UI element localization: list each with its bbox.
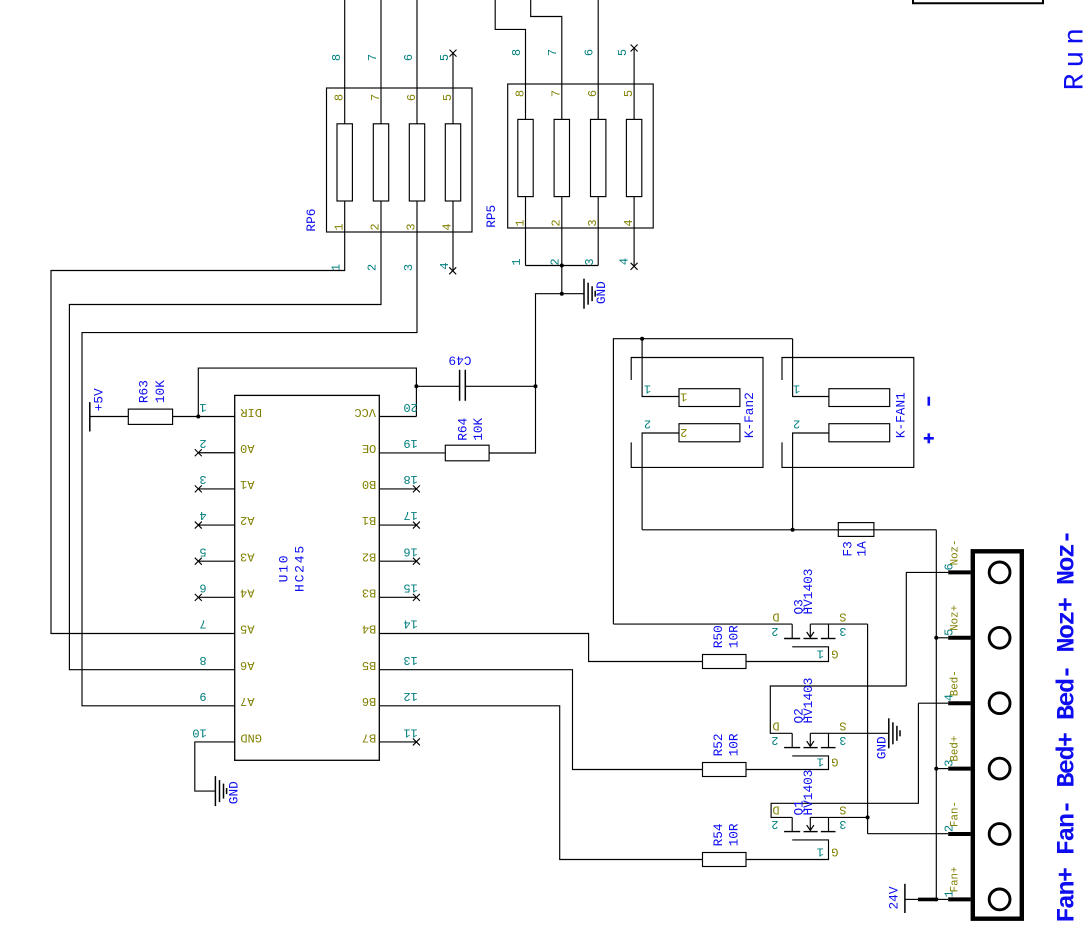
wire DIR node up and over to VCC — [198, 368, 416, 416]
Q2 channel bars — [784, 747, 800, 749]
svg-text:10R: 10R — [726, 625, 741, 648]
capacitor C49 plates — [459, 370, 461, 401]
svg-text:Noz+: Noz+ — [950, 605, 962, 631]
wire K-Fan2 pin2 to fuse net — [642, 433, 679, 530]
resistor RP6 element 4 body — [445, 124, 460, 201]
wire Q3/Q1 source down to Fan- terminal — [867, 624, 869, 834]
wire net RP6 pin1 to U10 A5 — [51, 201, 345, 634]
Q3 channel bars — [784, 638, 800, 640]
resistor pack RP6 box — [327, 88, 473, 232]
svg-text:18: 18 — [403, 472, 417, 486]
ground symbol near Q2 — [888, 718, 890, 748]
svg-text:Run: Run — [1061, 22, 1089, 90]
svg-text:1: 1 — [199, 400, 206, 414]
wire RP5 pin4 stub — [633, 197, 635, 266]
resistor RP6 element 3 body — [409, 124, 424, 201]
svg-text:1: 1 — [817, 845, 824, 859]
svg-text:HV1403: HV1403 — [801, 569, 816, 615]
svg-text:1: 1 — [817, 647, 824, 661]
svg-text:24V: 24V — [887, 886, 902, 909]
svg-text:B6: B6 — [362, 694, 376, 708]
svg-text:1: 1 — [680, 390, 687, 404]
no-connect X U10 pin 4 — [195, 522, 202, 529]
svg-text:8: 8 — [510, 49, 524, 56]
Q2 gate plate — [746, 756, 829, 770]
junction Bed+ rail — [934, 767, 938, 771]
svg-text:7: 7 — [369, 94, 383, 101]
wire U10 pin 11 (B7) stub — [379, 741, 416, 743]
wire Noz+ to 24V rail — [936, 637, 948, 639]
svg-text:S: S — [839, 803, 846, 817]
svg-text:5: 5 — [441, 94, 455, 101]
svg-text:HV1403: HV1403 — [801, 770, 816, 816]
junction RP5 ground bus — [560, 264, 564, 268]
wire Q1 drain from Bed- net — [771, 703, 918, 817]
junction Noz+ rail — [934, 636, 938, 640]
resistor R50 body — [703, 655, 747, 669]
wire Q2 source to ground — [810, 732, 889, 734]
connector K-FAN1 pin1 box — [829, 389, 890, 407]
resistor R52 body — [703, 763, 747, 777]
svg-text:12: 12 — [403, 689, 417, 703]
svg-text:1: 1 — [644, 382, 651, 396]
svg-text:1: 1 — [510, 258, 524, 265]
svg-text:7: 7 — [199, 617, 206, 631]
svg-text:B0: B0 — [362, 477, 376, 491]
svg-text:A3: A3 — [240, 549, 254, 563]
svg-text:RP6: RP6 — [304, 209, 319, 232]
no-connect X U10 pin 2 — [195, 449, 202, 456]
svg-text:D: D — [772, 719, 779, 733]
svg-text:+5V: +5V — [92, 388, 107, 411]
svg-text:6: 6 — [405, 94, 419, 101]
no-connect X U10 pin 11 — [413, 738, 420, 745]
Q2 drain bar — [791, 733, 793, 747]
connector K-Fan2 outline — [631, 358, 763, 468]
svg-text:B4: B4 — [362, 622, 376, 636]
wire U10 pin 2 (A0) stub — [198, 452, 234, 454]
resistor RP6 element 2 body — [373, 124, 388, 201]
svg-text:7: 7 — [366, 54, 380, 61]
svg-text:10R: 10R — [726, 733, 741, 756]
svg-text:5: 5 — [616, 49, 630, 56]
no-connect X RP6 pin5 — [450, 50, 457, 57]
svg-text:14: 14 — [403, 617, 417, 631]
svg-text:10K: 10K — [471, 417, 486, 440]
no-connect X U10 pin 6 — [195, 594, 202, 601]
svg-text:3: 3 — [583, 258, 597, 265]
wire RP5 pin8 with jog to top edge — [495, 0, 525, 119]
svg-text:3: 3 — [839, 817, 846, 831]
wire Q2 drain from Noz- net — [770, 686, 906, 733]
wire fan switched net (Q3 drain to fans) — [613, 339, 792, 624]
svg-text:10: 10 — [192, 725, 206, 739]
svg-text:3: 3 — [839, 624, 846, 638]
no-connect X U10 pin 18 — [413, 485, 420, 492]
resistor RP5 element 1 body — [518, 119, 533, 196]
connector K-Fan2 pin2 box — [679, 424, 740, 442]
Q1 arrow — [809, 817, 811, 830]
wire U10 pin 6 (A4) stub — [198, 596, 234, 598]
wire ground net down to R64 — [489, 386, 535, 453]
svg-text:D: D — [772, 610, 779, 624]
svg-text:K-FAN1: K-FAN1 — [894, 392, 909, 438]
wire Bed+ to 24V rail — [936, 768, 948, 770]
svg-text:GND: GND — [240, 730, 262, 744]
wire RP6 pin8 to top edge — [344, 0, 346, 124]
svg-text:A7: A7 — [240, 694, 254, 708]
resistor pack RP5 box — [508, 84, 654, 228]
Q3 source bar — [828, 624, 830, 638]
svg-text:5: 5 — [622, 90, 636, 97]
terminal 6 Noz- circle — [989, 562, 1010, 583]
svg-text:R63: R63 — [137, 380, 152, 403]
no-connect X U10 pin 15 — [413, 594, 420, 601]
terminal 3 stub — [948, 767, 970, 771]
wire ground node to GND symbol — [562, 293, 584, 295]
terminal 2 Fan- circle — [989, 824, 1010, 845]
wire RP6 pin7 to top edge — [380, 0, 382, 124]
wire Q3 source to rail — [810, 623, 867, 625]
wire Noz- to Q2 drain net — [906, 572, 948, 686]
wire R63 to U10 DIR — [173, 416, 235, 418]
svg-text:8: 8 — [333, 94, 347, 101]
svg-text:A0: A0 — [240, 441, 254, 455]
wire RP5 pin5 stub — [633, 48, 635, 119]
wire 24V rail vertical — [935, 530, 937, 900]
junction C49 ground net — [534, 384, 538, 388]
svg-text:11: 11 — [403, 725, 417, 739]
fuse F3 body — [838, 523, 874, 537]
svg-text:VCC: VCC — [354, 405, 376, 419]
svg-text:19: 19 — [403, 436, 417, 450]
wire Q1 source to junction — [810, 816, 867, 818]
no-connect X RP6 pin4 — [449, 267, 456, 274]
wire net RP6 pin3 to U10 A7 — [82, 201, 417, 706]
wire B6 net U10 to R54 — [379, 706, 702, 860]
svg-text:U10: U10 — [277, 554, 292, 583]
junction DIR node — [196, 415, 200, 419]
wire fans to fuse F3 to 24V rail — [642, 529, 936, 531]
Q1 source bar — [828, 817, 830, 831]
terminal 5 Noz+ circle — [989, 627, 1010, 648]
wire U10 pin 3 (A1) stub — [198, 488, 234, 490]
svg-text:8: 8 — [513, 90, 527, 97]
svg-text:G: G — [831, 646, 838, 660]
wire RP5 pin6 to top edge — [597, 0, 599, 119]
wire RP5 pins 1-3 to ground bus — [525, 197, 527, 266]
svg-text:2: 2 — [199, 436, 206, 450]
terminal 4 Bed- circle — [989, 693, 1010, 714]
svg-text:5: 5 — [438, 54, 452, 61]
resistor R63 body — [128, 409, 172, 424]
svg-text:S: S — [839, 719, 846, 733]
Q1 gate plate — [746, 840, 829, 860]
terminal 6 stub — [948, 570, 970, 574]
terminal block connector body — [973, 551, 1022, 918]
svg-text:8: 8 — [199, 653, 206, 667]
svg-text:F3: F3 — [841, 541, 856, 556]
no-connect X RP5 pin5 — [631, 45, 638, 52]
svg-text:B1: B1 — [362, 513, 376, 527]
svg-text:2: 2 — [366, 264, 380, 271]
svg-text:2: 2 — [368, 223, 382, 230]
no-connect X RP5 pin4 — [631, 263, 638, 270]
svg-text:4: 4 — [199, 508, 206, 522]
title block frame fragment — [913, 0, 1043, 3]
svg-text:2: 2 — [771, 817, 778, 831]
svg-text:GND: GND — [226, 781, 241, 804]
svg-text:7: 7 — [546, 49, 560, 56]
svg-text:A2: A2 — [240, 513, 254, 527]
svg-text:5: 5 — [199, 544, 206, 558]
wire +5V to R63 — [90, 416, 129, 418]
wire RP5 pin7 with jog to top edge — [531, 0, 562, 119]
polarity minus mark — [927, 397, 930, 406]
svg-text:4: 4 — [618, 258, 632, 265]
svg-text:20: 20 — [403, 400, 417, 414]
resistor R54 body — [703, 853, 747, 867]
svg-text:10K: 10K — [153, 380, 168, 403]
svg-text:13: 13 — [403, 653, 417, 667]
terminal 1 stub — [948, 897, 970, 901]
svg-text:DIR: DIR — [240, 405, 262, 419]
no-connect X U10 pin 5 — [195, 558, 202, 565]
wire K-Fan2 pin1 — [642, 339, 679, 397]
svg-text:R50: R50 — [711, 625, 726, 648]
Q3 drain bar — [791, 624, 793, 638]
ground symbol near RP5 — [583, 279, 585, 309]
svg-text:4: 4 — [440, 223, 454, 230]
resistor RP5 element 4 body — [626, 119, 641, 196]
connector K-FAN1 outline — [782, 358, 914, 468]
connector K-Fan2 pin1 box — [679, 389, 740, 407]
junction Q1 source — [866, 815, 870, 819]
svg-text:R54: R54 — [711, 823, 726, 846]
svg-text:A1: A1 — [240, 477, 254, 491]
Q2 source bar — [828, 733, 830, 747]
Q1 drain bar — [791, 817, 793, 831]
op IC U10 HC245 body — [235, 395, 380, 760]
resistor RP6 element 1 body — [337, 124, 352, 201]
junction Fan+ rail — [934, 897, 938, 901]
svg-text:1: 1 — [793, 382, 800, 396]
svg-text:2: 2 — [771, 624, 778, 638]
junction ground node — [560, 292, 564, 296]
wire U10 pin 18 (B0) stub — [379, 488, 416, 490]
wire U10 pin 15 (B3) stub — [379, 596, 416, 598]
wire K-FAN1 pin2 to fuse net — [793, 433, 829, 530]
svg-text:HC245: HC245 — [292, 544, 307, 592]
resistor RP5 element 2 body — [554, 119, 569, 196]
wire B5 net U10 to R52 — [379, 670, 702, 770]
wire U10 GND pin to ground — [195, 742, 235, 791]
svg-text:C49: C49 — [449, 353, 472, 368]
svg-text:2: 2 — [644, 417, 651, 431]
junction fan net at K-Fan2 — [640, 337, 644, 341]
wire R64 to U10 OE — [379, 452, 445, 454]
wire RP6 pin5 stub — [452, 53, 454, 124]
ground symbol below U10 — [214, 776, 216, 806]
wire ground node to C49 net — [536, 294, 562, 387]
junction fans supply at fuse — [791, 528, 795, 532]
svg-text:7: 7 — [550, 90, 564, 97]
svg-text:2: 2 — [680, 425, 687, 439]
svg-text:1: 1 — [817, 755, 824, 769]
Q3 gate plate — [746, 647, 829, 662]
wire K-FAN1 pin1 — [793, 339, 829, 397]
svg-text:10R: 10R — [726, 823, 741, 846]
no-connect X U10 pin 16 — [413, 558, 420, 565]
terminal 5 stub — [948, 636, 970, 640]
svg-text:HV1403: HV1403 — [801, 678, 816, 724]
svg-text:9: 9 — [199, 689, 206, 703]
svg-text:Bed+: Bed+ — [950, 736, 962, 762]
junction VCC node at C49 — [414, 384, 418, 388]
svg-text:6: 6 — [583, 49, 597, 56]
wire VCC pin stub — [379, 416, 416, 418]
wire net RP6 pin2 to U10 A6 — [69, 201, 381, 670]
svg-text:S: S — [839, 610, 846, 624]
svg-text:B2: B2 — [362, 549, 376, 563]
svg-text:6: 6 — [402, 54, 416, 61]
svg-text:G: G — [831, 754, 838, 768]
no-connect X U10 pin 3 — [195, 485, 202, 492]
Q3 arrow — [809, 624, 811, 637]
resistor R64 body — [445, 445, 489, 461]
svg-text:15: 15 — [403, 581, 417, 595]
svg-text:A4: A4 — [240, 586, 254, 600]
svg-text:B3: B3 — [362, 586, 376, 600]
wire RP6 pin6 to top edge — [416, 0, 418, 124]
svg-text:6: 6 — [199, 581, 206, 595]
svg-text:A5: A5 — [240, 622, 254, 636]
wire Bed- to Q1 drain net — [918, 702, 948, 704]
svg-text:D: D — [772, 803, 779, 817]
svg-text:4: 4 — [438, 262, 452, 269]
terminal 3 Bed+ circle — [989, 758, 1010, 779]
power symbol 24V bar — [904, 884, 906, 913]
Q2 arrow — [809, 733, 811, 746]
svg-text:Noz-: Noz- — [950, 539, 962, 565]
svg-text:Fan+: Fan+ — [950, 866, 962, 892]
svg-text:R52: R52 — [711, 733, 726, 756]
connector K-FAN1 pin2 box — [829, 424, 890, 442]
svg-text:3: 3 — [404, 223, 418, 230]
svg-text:GND: GND — [874, 736, 889, 759]
no-connect X U10 pin 17 — [413, 522, 420, 529]
terminal 1 Fan+ circle — [989, 889, 1010, 910]
svg-text:Fan+ Fan- Bed+ Bed- Noz+ Noz-: Fan+ Fan- Bed+ Bed- Noz+ Noz- — [1052, 531, 1081, 923]
resistor RP5 element 3 body — [591, 119, 606, 196]
svg-text:B5: B5 — [362, 658, 376, 672]
svg-text:K-Fan2: K-Fan2 — [742, 392, 757, 438]
svg-text:OE: OE — [362, 441, 376, 455]
wire VCC node to C49 left plate — [416, 385, 459, 387]
svg-text:8: 8 — [330, 54, 344, 61]
svg-text:G: G — [831, 844, 838, 858]
polarity plus mark — [927, 433, 930, 443]
svg-text:B7: B7 — [362, 730, 376, 744]
svg-text:3: 3 — [839, 733, 846, 747]
svg-text:R64: R64 — [456, 418, 471, 441]
svg-text:3: 3 — [199, 472, 206, 486]
svg-text:16: 16 — [403, 544, 417, 558]
wire Fan- to terminal — [868, 833, 949, 835]
svg-text:RP5: RP5 — [484, 205, 499, 228]
svg-text:6: 6 — [586, 90, 600, 97]
wire U10 pin 5 (A3) stub — [198, 560, 234, 562]
wire ground bus down — [561, 266, 563, 294]
wire U10 pin 4 (A2) stub — [198, 524, 234, 526]
terminal 4 stub — [948, 701, 970, 705]
wire 24V to Fan+ terminal — [905, 898, 918, 900]
wire U10 pin 16 (B2) stub — [379, 560, 416, 562]
terminal 2 stub — [948, 832, 970, 836]
svg-text:3: 3 — [402, 264, 416, 271]
wire RP6 pin4 stub — [452, 201, 454, 271]
wire B4 net U10 to R50 — [379, 634, 702, 662]
svg-text:Fan-: Fan- — [950, 801, 962, 827]
svg-text:2: 2 — [793, 417, 800, 431]
wire C49 right plate to ground net — [465, 385, 535, 387]
svg-text:4: 4 — [622, 219, 636, 226]
svg-text:2: 2 — [771, 733, 778, 747]
wire Q3 drain from fan net — [613, 623, 792, 625]
svg-text:1A: 1A — [854, 541, 869, 557]
Q1 channel bars — [784, 831, 800, 833]
svg-text:GND: GND — [594, 281, 609, 304]
svg-text:17: 17 — [403, 508, 417, 522]
svg-text:Bed-: Bed- — [950, 670, 962, 696]
wire U10 pin 17 (B1) stub — [379, 524, 416, 526]
svg-text:A6: A6 — [240, 658, 254, 672]
power symbol +5V — [89, 402, 91, 431]
